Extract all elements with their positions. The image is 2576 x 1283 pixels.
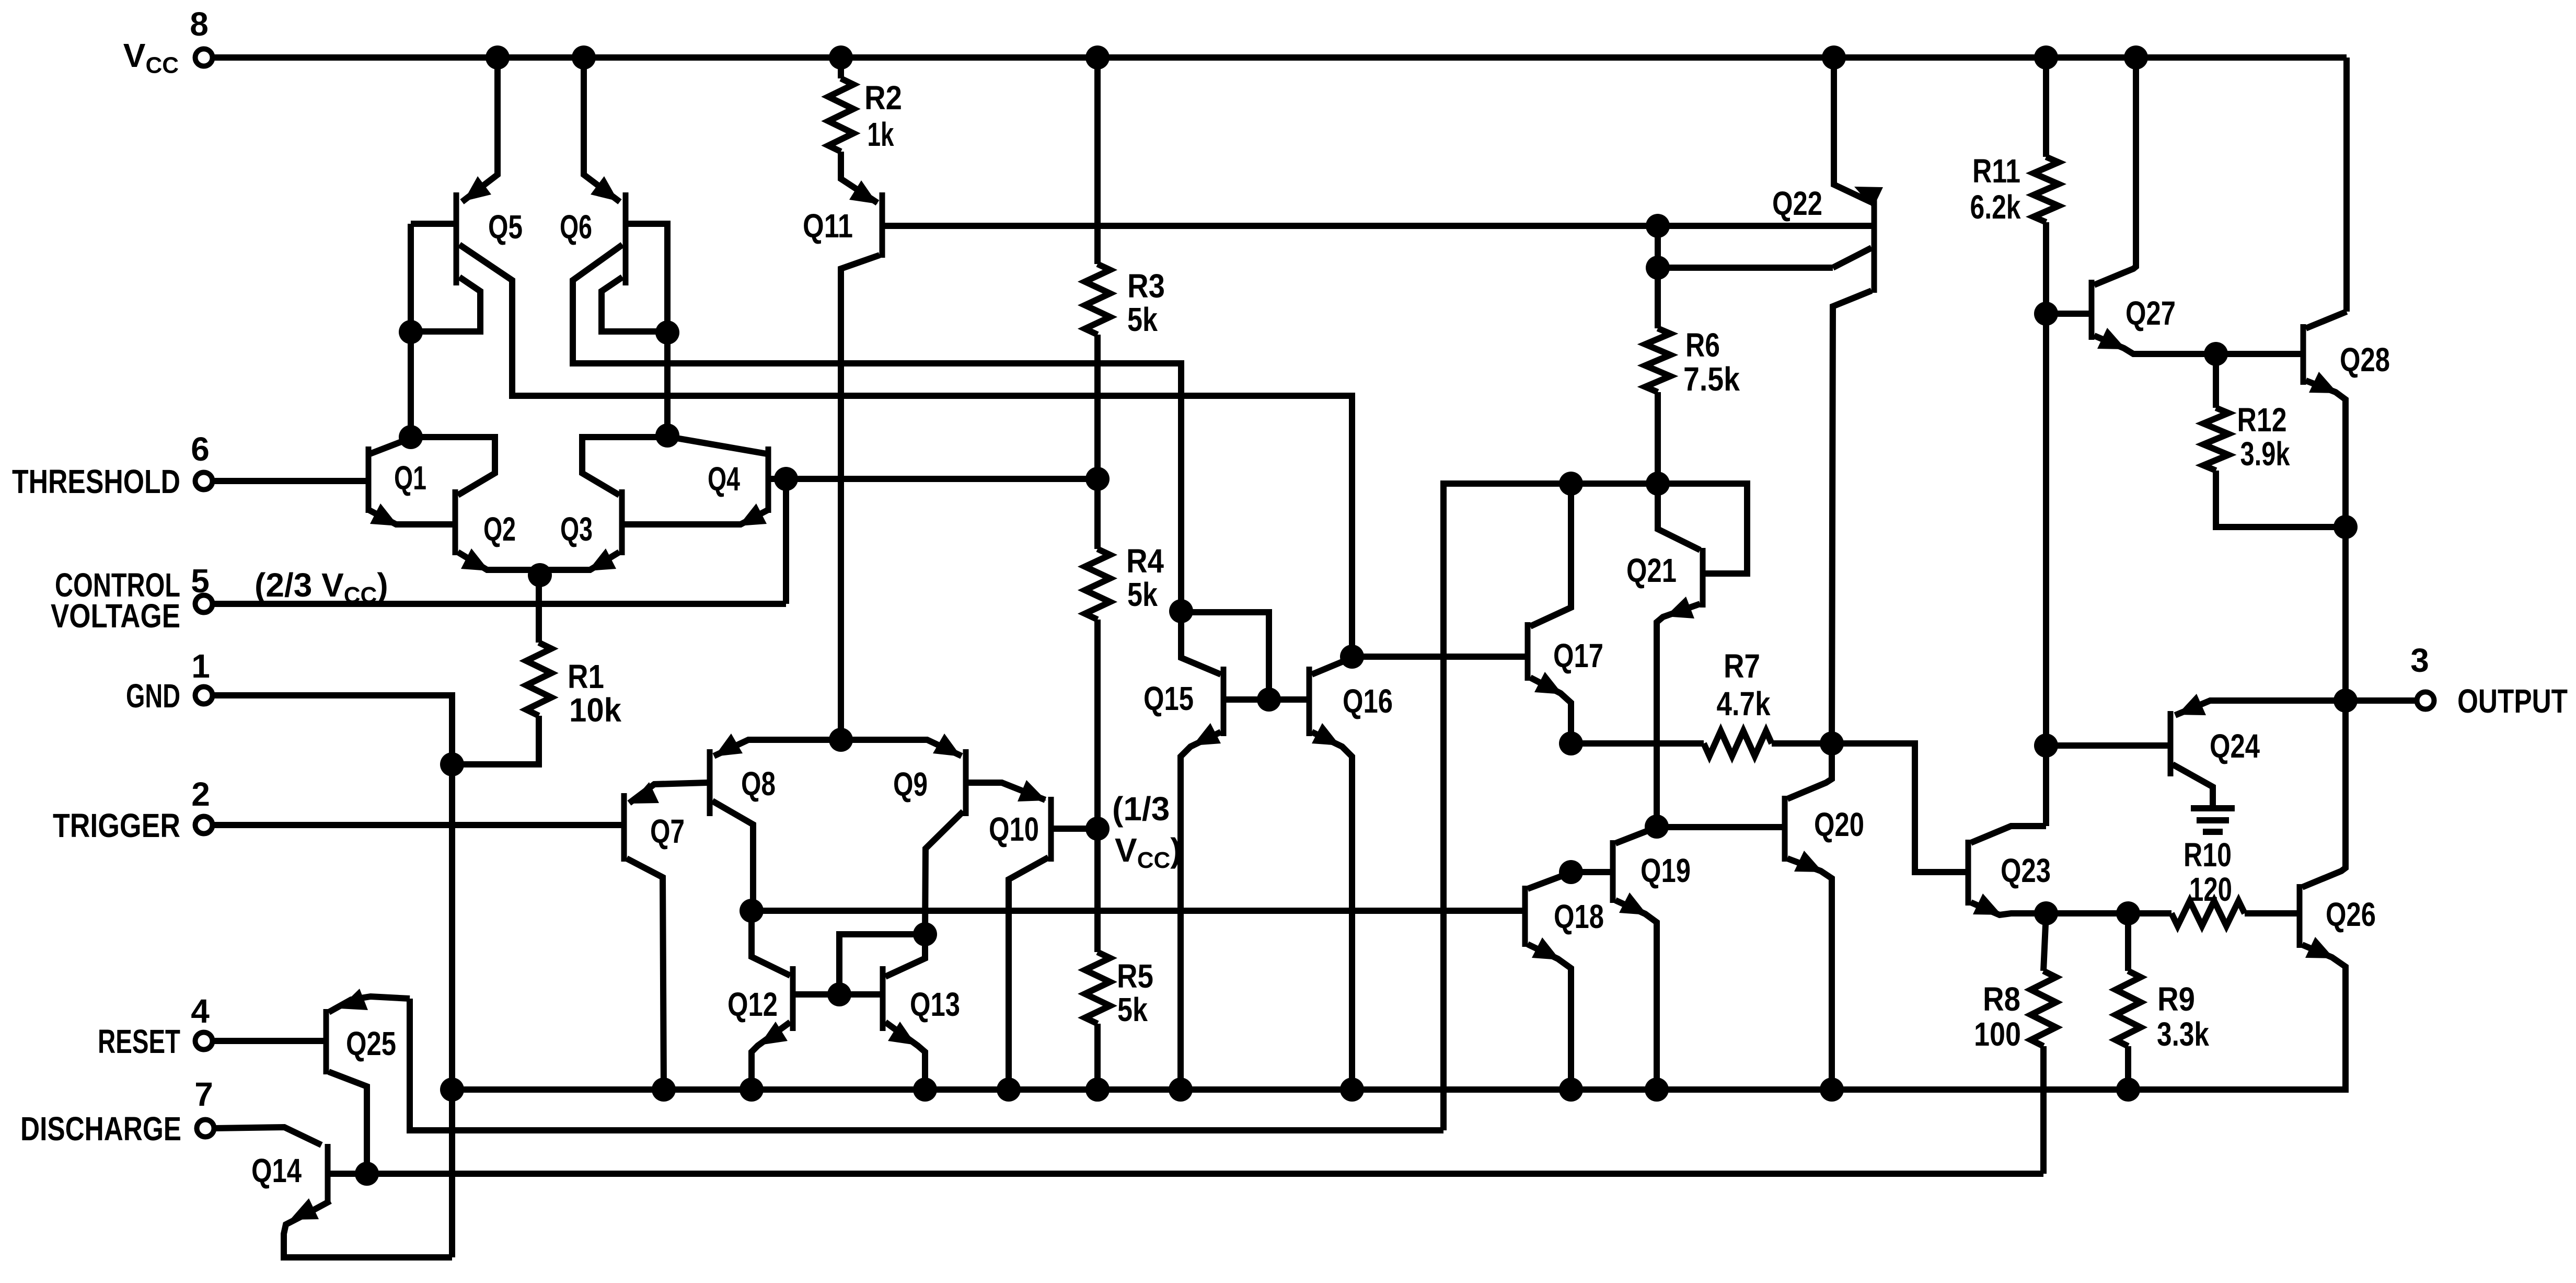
svg-text:TRIGGER: TRIGGER	[53, 807, 180, 844]
svg-text:Q6: Q6	[560, 208, 592, 246]
svg-text:Q7: Q7	[650, 812, 685, 850]
svg-text:R3: R3	[1127, 267, 1165, 305]
svg-text:Q25: Q25	[346, 1025, 396, 1062]
svg-text:Q10: Q10	[989, 810, 1039, 848]
svg-text:2: 2	[191, 775, 210, 813]
svg-text:Q5: Q5	[488, 208, 523, 246]
svg-text:Q16: Q16	[1343, 682, 1393, 720]
svg-text:THRESHOLD: THRESHOLD	[12, 463, 180, 500]
svg-text:10k: 10k	[569, 691, 621, 729]
svg-text:1k: 1k	[868, 116, 894, 153]
svg-text:5k: 5k	[1127, 576, 1158, 613]
svg-text:R5: R5	[1117, 957, 1153, 995]
svg-text:4: 4	[191, 992, 210, 1030]
svg-text:Q26: Q26	[2326, 896, 2376, 933]
svg-text:100: 100	[1974, 1015, 2021, 1053]
svg-text:VOLTAGE: VOLTAGE	[51, 597, 180, 635]
svg-text:DISCHARGE: DISCHARGE	[20, 1110, 181, 1148]
svg-text:6: 6	[191, 430, 210, 468]
svg-text:6.2k: 6.2k	[1970, 188, 2021, 226]
svg-text:Q22: Q22	[1772, 185, 1822, 222]
svg-text:Q18: Q18	[1554, 898, 1604, 935]
svg-text:4.7k: 4.7k	[1717, 685, 1771, 723]
svg-text:Q17: Q17	[1553, 637, 1603, 674]
svg-text:R11: R11	[1972, 152, 2020, 190]
svg-text:7.5k: 7.5k	[1683, 360, 1740, 398]
svg-text:Q23: Q23	[2001, 852, 2051, 889]
svg-text:Q20: Q20	[1814, 806, 1864, 843]
svg-text:RESET: RESET	[98, 1023, 180, 1060]
svg-text:R7: R7	[1724, 647, 1760, 685]
svg-text:Q12: Q12	[727, 986, 778, 1023]
svg-text:Q2: Q2	[483, 510, 516, 548]
svg-text:Q21: Q21	[1626, 552, 1677, 589]
svg-text:R2: R2	[864, 79, 902, 117]
svg-text:(1/3: (1/3	[1112, 790, 1170, 828]
svg-text:GND: GND	[126, 677, 180, 715]
svg-text:Q28: Q28	[2340, 341, 2390, 379]
svg-text:Q8: Q8	[741, 765, 776, 803]
svg-text:OUTPUT: OUTPUT	[2457, 682, 2568, 720]
svg-text:5k: 5k	[1117, 991, 1148, 1028]
svg-text:Q27: Q27	[2126, 294, 2176, 332]
svg-text:3: 3	[2410, 641, 2429, 679]
svg-text:1: 1	[191, 647, 210, 685]
svg-text:Q19: Q19	[1641, 852, 1691, 889]
svg-text:R12: R12	[2237, 401, 2287, 439]
svg-text:3.9k: 3.9k	[2240, 435, 2290, 473]
svg-text:5k: 5k	[1127, 301, 1158, 338]
svg-text:Q9: Q9	[893, 765, 928, 803]
svg-text:8: 8	[190, 5, 209, 43]
svg-text:5: 5	[191, 562, 210, 600]
svg-text:R4: R4	[1126, 542, 1164, 580]
svg-text:Q1: Q1	[394, 459, 426, 497]
svg-text:R8: R8	[1983, 980, 2020, 1018]
svg-text:R6: R6	[1685, 326, 1720, 364]
svg-text:R1: R1	[568, 658, 604, 695]
svg-text:Q24: Q24	[2210, 727, 2260, 765]
svg-text:7: 7	[194, 1075, 213, 1113]
svg-text:R9: R9	[2157, 980, 2195, 1018]
svg-text:Q15: Q15	[1143, 680, 1194, 717]
svg-text:Q4: Q4	[708, 460, 740, 498]
svg-text:Q13: Q13	[910, 986, 960, 1023]
svg-text:Q11: Q11	[803, 207, 853, 245]
svg-text:Q14: Q14	[251, 1152, 302, 1189]
svg-text:Q3: Q3	[560, 510, 593, 548]
svg-text:3.3k: 3.3k	[2157, 1015, 2209, 1053]
svg-text:R10: R10	[2184, 836, 2232, 874]
